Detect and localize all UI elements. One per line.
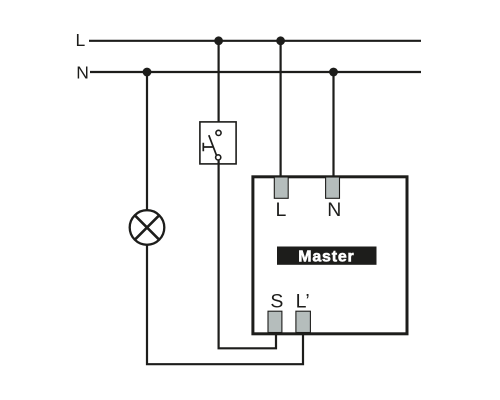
terminal L (gray) <box>274 177 288 198</box>
switch S1 top contact <box>216 130 221 135</box>
svg-text:L: L <box>76 30 86 50</box>
svg-text:N: N <box>76 62 89 82</box>
svg-text:Master: Master <box>298 249 354 266</box>
wire L to switch <box>218 41 220 130</box>
wire N to lamp <box>146 72 148 211</box>
wire N supply line <box>90 71 421 73</box>
switch S1 box <box>200 122 236 164</box>
terminal N (gray) <box>326 177 340 198</box>
terminal S (gray) <box>268 311 282 332</box>
svg-text:L: L <box>276 199 287 221</box>
junction dot N-lamp <box>143 68 152 77</box>
svg-text:S: S <box>270 291 283 313</box>
terminal L' (gray) <box>296 311 311 332</box>
wire switch to terminal S <box>219 160 276 348</box>
master nameplate <box>277 247 377 265</box>
switch S1 pushbutton actuator <box>203 143 213 151</box>
junction dot L-master <box>276 36 285 45</box>
junction dot L-switch <box>214 36 223 45</box>
wire lamp to terminal L' <box>147 245 303 364</box>
switch S1 lever <box>209 135 217 155</box>
junction dot N-master <box>329 68 338 77</box>
lamp E1 <box>130 210 165 245</box>
wire N to terminal N <box>332 72 334 176</box>
svg-text:N: N <box>327 199 341 221</box>
wire L supply line <box>89 40 421 42</box>
switch S1 bottom contact <box>216 155 221 160</box>
wire L to terminal L <box>280 41 282 176</box>
svg-text:L’: L’ <box>296 291 310 313</box>
lamp E1 cross <box>135 215 160 240</box>
master unit U1 box <box>253 177 407 334</box>
